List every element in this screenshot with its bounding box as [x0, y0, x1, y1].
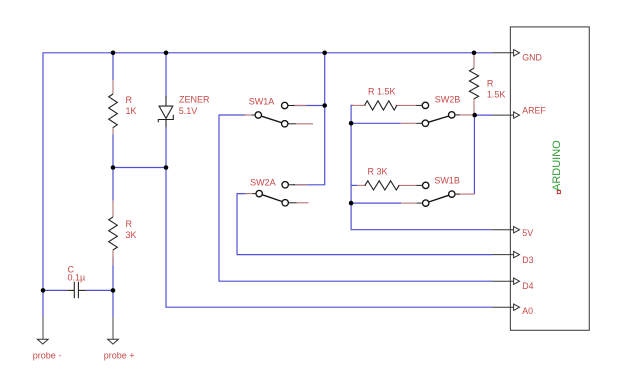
svg-text:SW1B: SW1B: [434, 176, 460, 186]
svg-text:A0: A0: [522, 306, 533, 316]
svg-text:0.1µ: 0.1µ: [68, 273, 86, 283]
svg-text:probe -: probe -: [33, 351, 62, 361]
svg-text:3K: 3K: [126, 230, 137, 240]
svg-text:D4: D4: [522, 281, 533, 291]
svg-text:GND: GND: [522, 52, 542, 62]
svg-text:ARDUINO: ARDUINO: [551, 140, 563, 191]
svg-text:1K: 1K: [126, 106, 137, 116]
svg-text:ZENER: ZENER: [179, 95, 210, 105]
svg-text:AREF: AREF: [522, 105, 546, 115]
svg-text:R: R: [126, 219, 133, 229]
svg-text:R 3K: R 3K: [368, 167, 388, 177]
svg-text:1.5K: 1.5K: [487, 90, 506, 100]
svg-text:R 1.5K: R 1.5K: [368, 87, 396, 97]
svg-text:probe +: probe +: [104, 351, 135, 361]
svg-text:5V: 5V: [522, 228, 533, 238]
svg-text:5.1V: 5.1V: [179, 106, 198, 116]
svg-text:R: R: [487, 79, 494, 89]
svg-text:D3: D3: [522, 255, 533, 265]
svg-text:R: R: [126, 95, 133, 105]
svg-text:SW1A: SW1A: [249, 97, 275, 107]
svg-text:SW2B: SW2B: [435, 95, 461, 105]
svg-text:SW2A: SW2A: [250, 178, 276, 188]
